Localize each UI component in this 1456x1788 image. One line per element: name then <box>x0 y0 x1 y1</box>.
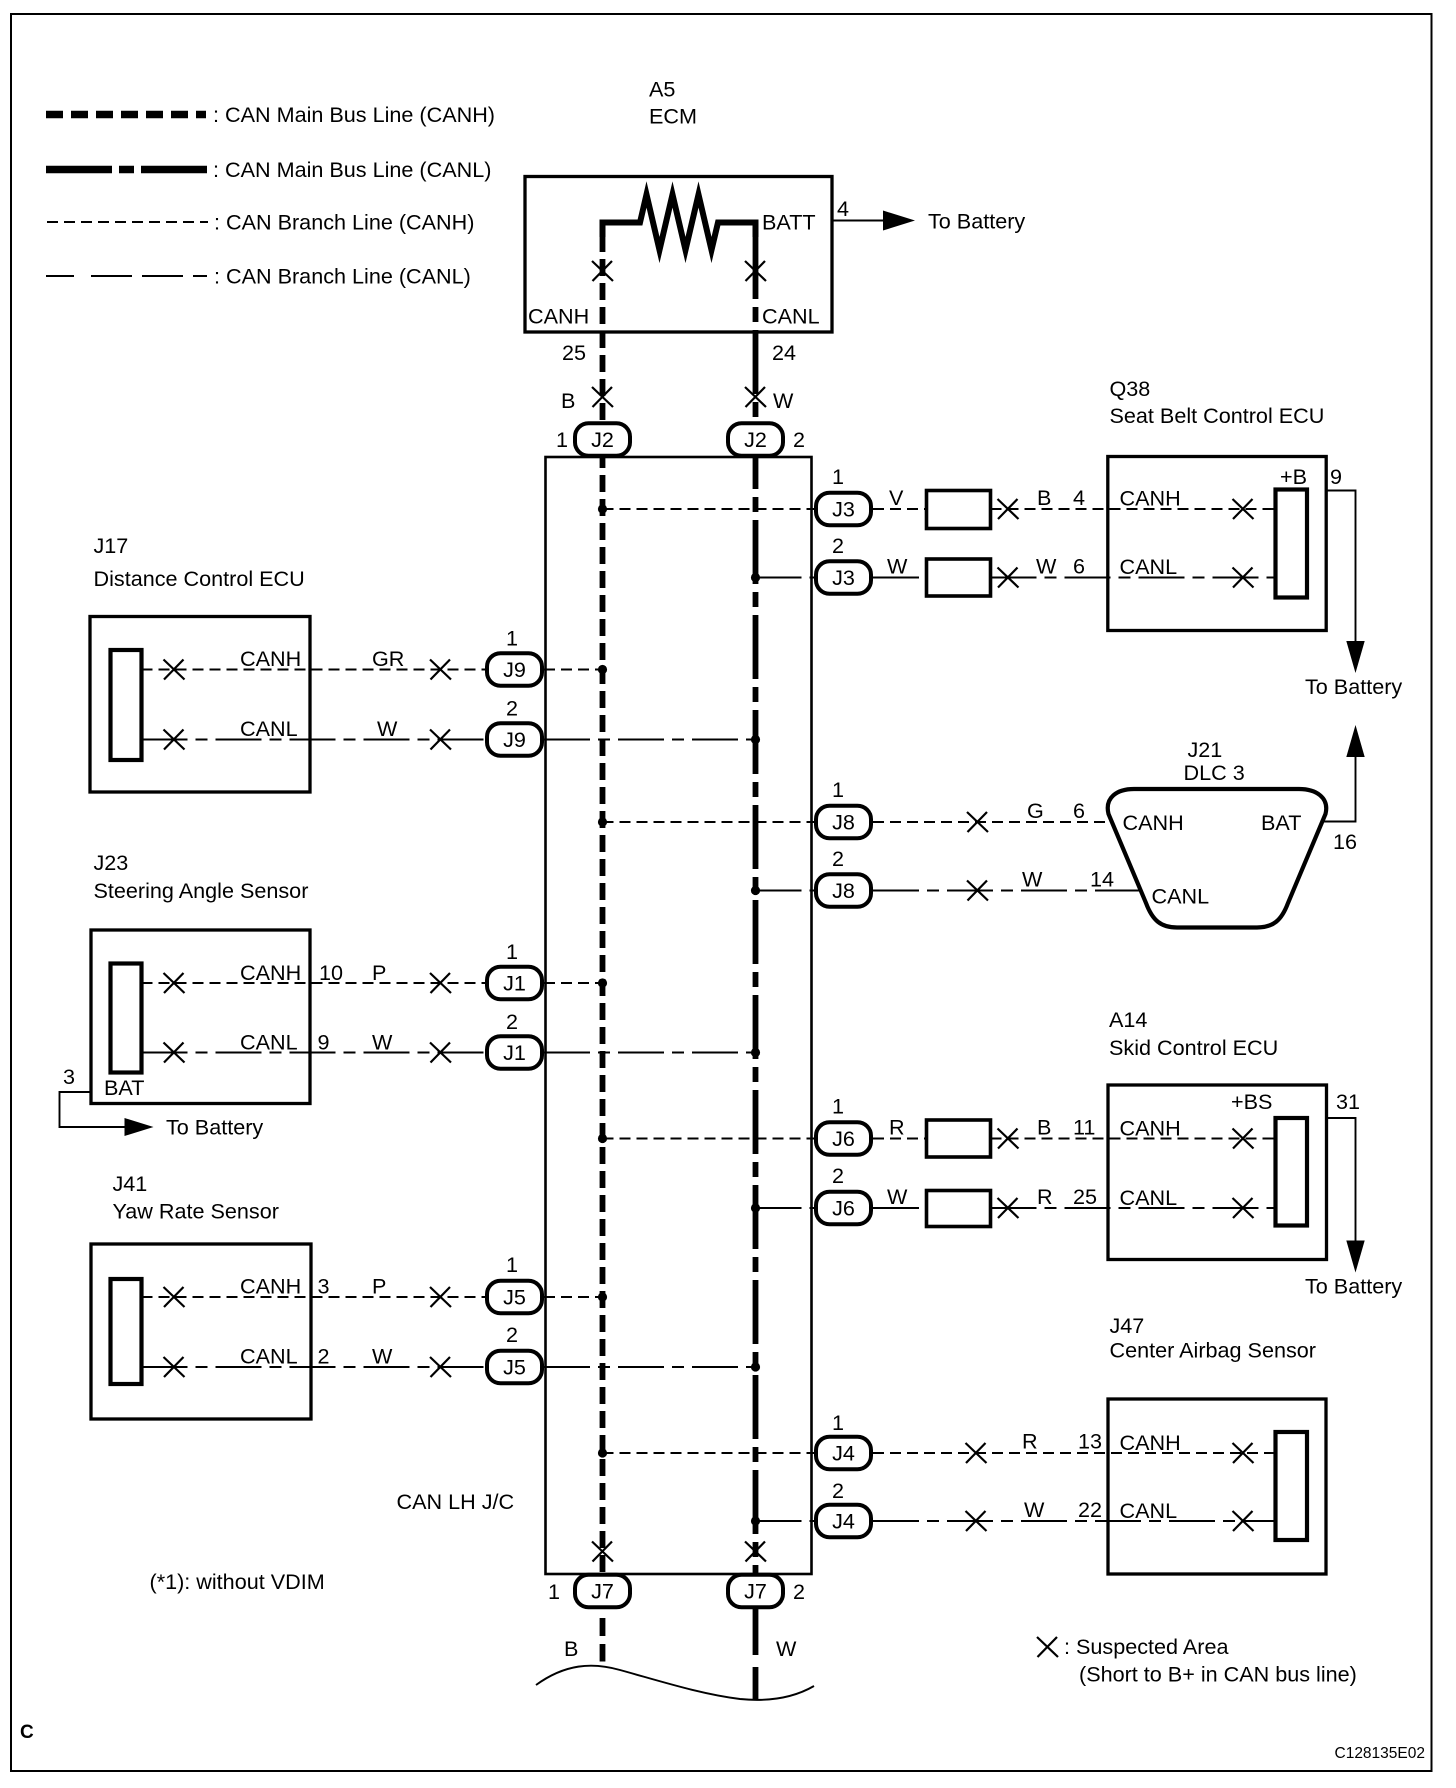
arrow to battery (right) <box>883 211 915 231</box>
suspected-area mark J17 CANH inner <box>164 660 185 680</box>
node junction dot J8-2 on CANL bus <box>751 886 760 895</box>
wire J8-2 to DLC3 CANL <box>873 890 1141 892</box>
wire J8 CANL branch from CANL bus <box>756 890 815 892</box>
svg-text:BAT: BAT <box>1261 810 1301 835</box>
svg-text:R: R <box>1022 1429 1038 1454</box>
svg-text:2: 2 <box>506 1322 518 1347</box>
connector J7 pin 2 <box>728 1575 783 1608</box>
noise filter box (CANH, A14) <box>927 1120 991 1157</box>
svg-text:A14: A14 <box>1109 1007 1147 1032</box>
svg-text:1: 1 <box>506 939 518 964</box>
svg-text:J41: J41 <box>113 1171 148 1196</box>
svg-text:1: 1 <box>506 1252 518 1277</box>
wavy break line <box>536 1666 814 1700</box>
svg-text:P: P <box>372 1274 386 1299</box>
svg-text:9: 9 <box>318 1030 330 1055</box>
svg-text:J7: J7 <box>744 1579 767 1604</box>
svg-text:Center Airbag Sensor: Center Airbag Sensor <box>1110 1338 1316 1363</box>
svg-text:J5: J5 <box>503 1355 526 1380</box>
node junction dot J3-1 on CANH bus <box>598 504 607 513</box>
connector J4 pin 1 <box>816 1437 871 1470</box>
svg-text:2: 2 <box>506 1009 518 1034</box>
svg-text:1: 1 <box>832 777 844 802</box>
wire J23 CANL branch (W) <box>142 1052 486 1054</box>
wire noise filter to A14 CANL <box>991 1207 1276 1209</box>
svg-text:W: W <box>776 1636 797 1661</box>
svg-text:1: 1 <box>832 1410 844 1435</box>
svg-text:: CAN Main Bus Line (CANL): : CAN Main Bus Line (CANL) <box>213 157 491 182</box>
svg-text:C: C <box>20 1722 34 1743</box>
svg-text:CANL: CANL <box>240 716 298 741</box>
svg-text:1: 1 <box>832 1094 844 1119</box>
svg-text:+BS: +BS <box>1231 1089 1272 1114</box>
suspected-area mark on CANL at bottom of J/C <box>745 1542 766 1562</box>
svg-text:J21: J21 <box>1188 737 1223 762</box>
svg-text:6: 6 <box>1073 798 1085 823</box>
svg-text:11: 11 <box>1073 1115 1095 1140</box>
svg-text:2: 2 <box>832 846 844 871</box>
svg-text:W: W <box>377 716 398 741</box>
svg-text:B: B <box>564 1636 578 1661</box>
node junction dot J5-1 on CANH bus <box>598 1292 607 1301</box>
svg-text:: CAN Branch Line (CANL): : CAN Branch Line (CANL) <box>214 264 471 289</box>
connector block inside J17 <box>111 650 142 760</box>
svg-text:2: 2 <box>793 427 805 452</box>
suspected-area mark J23 CANH outer <box>430 973 451 993</box>
wire noise filter to Q38 CANH <box>991 508 1276 510</box>
suspected-area mark J47 CANL wire <box>966 1511 987 1531</box>
svg-text:W: W <box>372 1344 393 1369</box>
suspected-area mark on CANL above J2 <box>745 387 766 407</box>
connector block inside Q38 (+B) <box>1276 490 1308 598</box>
svg-text:CANH: CANH <box>240 960 301 985</box>
suspected-area mark J23 CANL outer <box>430 1043 451 1063</box>
svg-text:J7: J7 <box>591 1579 614 1604</box>
wire J23 CANL branch to CANL bus <box>544 1052 756 1054</box>
wire J41 CANH branch to bus <box>544 1296 603 1298</box>
svg-text:J4: J4 <box>832 1441 855 1466</box>
arrow to battery (up, J21) <box>1346 725 1364 757</box>
connector J6 pin 1 <box>816 1122 871 1155</box>
wire J6-2 to noise filter <box>873 1207 927 1209</box>
wire J41 CANL branch to CANL bus <box>544 1366 756 1368</box>
svg-text:BATT: BATT <box>762 210 816 235</box>
connector J9 pin 2 <box>487 723 542 756</box>
suspected-area mark J17 CANH outer <box>430 660 451 680</box>
suspected-area mark J47 CANL inner <box>1233 1511 1254 1531</box>
svg-text:R: R <box>889 1115 905 1140</box>
wire J23 CANH branch (P) <box>142 982 486 984</box>
svg-text:J6: J6 <box>832 1196 855 1221</box>
suspected-area mark J47 CANH wire <box>966 1443 987 1463</box>
svg-text:J5: J5 <box>503 1285 526 1310</box>
svg-text:B: B <box>1037 1115 1051 1140</box>
svg-text:To Battery: To Battery <box>166 1115 263 1140</box>
svg-text:CANL: CANL <box>240 1344 298 1369</box>
noise filter box (CANL, Q38) <box>927 559 991 596</box>
node junction dot J6-2 on CANL bus <box>751 1203 760 1212</box>
svg-text:J9: J9 <box>503 727 526 752</box>
legend sample: CAN Branch Line (CANH) <box>47 221 208 223</box>
svg-text:J1: J1 <box>503 1040 526 1065</box>
junction block CAN LH J/C box <box>546 457 812 1574</box>
wire BATT pin to battery arrow <box>832 220 886 222</box>
svg-text:CANH: CANH <box>240 1274 301 1299</box>
svg-text:C128135E02: C128135E02 <box>1335 1745 1426 1762</box>
svg-text:22: 22 <box>1078 1497 1102 1522</box>
legend sample: CAN Main Bus Line (CANL) <box>46 166 209 174</box>
ECU J41 box <box>91 1244 311 1419</box>
wire J41 CANL branch (W) <box>142 1366 486 1368</box>
wire noise filter to Q38 CANL <box>991 577 1276 579</box>
svg-text:W: W <box>773 388 794 413</box>
wire Q38 CANH branch from bus to J3 <box>603 508 815 510</box>
svg-text:24: 24 <box>772 340 796 365</box>
suspected-area mark A14 CANH inner <box>1233 1129 1254 1149</box>
arrow to battery (J23) <box>125 1118 154 1136</box>
wire CANL bus stub below J7 <box>753 1609 759 1700</box>
svg-text:3: 3 <box>318 1274 330 1299</box>
wire noise filter to A14 CANH <box>991 1138 1276 1140</box>
svg-text:CANH: CANH <box>1120 1430 1181 1455</box>
svg-text:J3: J3 <box>832 497 855 522</box>
connector J5 pin 1 <box>487 1281 542 1314</box>
svg-text:G: G <box>1027 798 1044 823</box>
svg-text:J8: J8 <box>832 810 855 835</box>
svg-text:BAT: BAT <box>104 1075 144 1100</box>
svg-text:25: 25 <box>1073 1184 1097 1209</box>
wire J17 CANH branch to bus <box>544 669 603 671</box>
ECU Q38 box <box>1108 457 1326 631</box>
connector J1 pin 1 <box>487 967 542 1000</box>
svg-text:W: W <box>1022 867 1043 892</box>
connector J21 DLC 3 body <box>1108 789 1326 928</box>
svg-text:To Battery: To Battery <box>1305 674 1402 699</box>
left side ECU devices section <box>60 533 761 1419</box>
svg-text:2: 2 <box>506 696 518 721</box>
svg-text:CAN LH J/C: CAN LH J/C <box>397 1489 515 1514</box>
suspected-area mark J17 CANL inner <box>164 730 185 750</box>
wire Q38 +B to battery <box>1326 491 1355 643</box>
wire J6-1 to noise filter <box>873 1138 927 1140</box>
connector block inside J23 <box>111 964 142 1073</box>
suspected-area mark J23 CANH inner <box>164 973 185 993</box>
wire CAN main bus CANL (vertical, W) <box>753 235 759 1608</box>
svg-text:14: 14 <box>1090 867 1114 892</box>
svg-text:CANH: CANH <box>240 646 301 671</box>
wire J8 CANH branch from bus to DLC3 <box>603 821 815 823</box>
node junction dot J1-1 on CANH bus <box>598 978 607 987</box>
suspected-area mark J41 CANH inner <box>164 1287 185 1307</box>
svg-text:J17: J17 <box>94 533 129 558</box>
node junction dot J9-2 on CANL bus <box>751 735 760 744</box>
svg-text:+B: +B <box>1280 464 1307 489</box>
legend sample: CAN Main Bus Line (CANH) <box>46 111 206 119</box>
arrow to battery (down, Q38) <box>1346 641 1364 673</box>
wire J23 BAT to battery <box>60 1092 127 1127</box>
svg-text:CANL: CANL <box>762 304 820 329</box>
suspected-area mark Q38 CANL wire <box>998 568 1019 588</box>
suspected-area mark on CANH inside ECM <box>592 261 613 281</box>
connector J1 pin 2 <box>487 1036 542 1069</box>
svg-text:R: R <box>1037 1184 1053 1209</box>
svg-text:B: B <box>561 388 575 413</box>
connector J2 pin 2 <box>728 423 783 456</box>
svg-text:W: W <box>1024 1497 1045 1522</box>
svg-text:W: W <box>1036 554 1057 579</box>
wire J23 CANH branch to bus <box>544 982 603 984</box>
noise filter box (CANL, A14) <box>927 1191 991 1227</box>
svg-text:6: 6 <box>1073 554 1085 579</box>
svg-text:CANH: CANH <box>1123 810 1184 835</box>
connector J7 pin 1 <box>575 1575 630 1608</box>
node junction dot J4-1 on CANH bus <box>598 1448 607 1457</box>
wire J17 CANH branch (GR) <box>142 669 486 671</box>
svg-text:31: 31 <box>1336 1089 1360 1114</box>
suspected-area legend mark <box>1037 1637 1058 1657</box>
svg-text:1: 1 <box>506 626 518 651</box>
connector J4 pin 2 <box>816 1505 871 1538</box>
ECU J47 box <box>1108 1399 1326 1574</box>
svg-text:25: 25 <box>562 340 586 365</box>
wire J6 CANH branch from bus <box>603 1138 815 1140</box>
node junction dot J1-2 on CANL bus <box>751 1048 760 1057</box>
svg-text:: CAN Main Bus Line (CANH): : CAN Main Bus Line (CANH) <box>213 102 495 127</box>
connector block inside J47 <box>1276 1432 1308 1540</box>
connector J2 pin 1 <box>575 423 630 456</box>
svg-text:2: 2 <box>832 1163 844 1188</box>
wire Q38 CANL branch from CANL bus to J3 <box>756 577 815 579</box>
svg-text:(Short to B+ in CAN bus line): (Short to B+ in CAN bus line) <box>1079 1662 1357 1687</box>
svg-text:2: 2 <box>832 533 844 558</box>
ECU J23 box <box>91 930 310 1104</box>
connector J6 pin 2 <box>816 1192 871 1225</box>
wire CANH bus stub below J7 <box>600 1618 606 1662</box>
suspected-area mark J8 CANL wire <box>967 881 988 901</box>
connector block inside A14 (+BS) <box>1276 1118 1308 1226</box>
arrow to battery (down, A14) <box>1346 1241 1364 1273</box>
suspected-area mark J23 CANL inner <box>164 1043 185 1063</box>
ECU J17 box <box>90 617 310 793</box>
svg-text:J4: J4 <box>832 1509 855 1534</box>
resistor R (CAN terminating resistor, with leads CANH to CANL) <box>603 195 756 251</box>
ECU A5 ECM box <box>525 177 832 333</box>
connector J8 pin 1 <box>816 806 871 839</box>
svg-text:: CAN Branch Line (CANH): : CAN Branch Line (CANH) <box>214 210 474 235</box>
svg-text:CANH: CANH <box>1120 486 1181 511</box>
svg-text:2: 2 <box>793 1579 805 1604</box>
suspected-area mark on CANL inside ECM <box>745 261 766 281</box>
node junction dot J4-2 on CANL bus <box>751 1516 760 1525</box>
suspected-area mark J8 CANH wire <box>967 812 988 832</box>
wire J4 CANL branch from CANL bus <box>756 1520 815 1522</box>
wire J4-1 to J47 CANH <box>873 1452 1276 1454</box>
connector J5 pin 2 <box>487 1351 542 1384</box>
svg-text:CANL: CANL <box>1152 884 1210 909</box>
wire J17 CANL branch (W) <box>142 739 486 741</box>
svg-text:J6: J6 <box>832 1126 855 1151</box>
svg-text:J9: J9 <box>503 657 526 682</box>
svg-text:CANH: CANH <box>528 304 589 329</box>
wire J3-2 to noise filter <box>873 577 927 579</box>
svg-text:To Battery: To Battery <box>1305 1274 1402 1299</box>
legend sample: CAN Branch Line (CANL) <box>46 275 207 277</box>
svg-text:B: B <box>1037 485 1051 510</box>
node junction dot J9-1 on CANH bus <box>598 665 607 674</box>
svg-text:DLC 3: DLC 3 <box>1184 760 1245 785</box>
svg-text:Distance Control ECU: Distance Control ECU <box>94 566 305 591</box>
wire J4-2 to J47 CANL <box>873 1520 1276 1522</box>
wire DLC3 BAT to battery <box>1322 757 1356 822</box>
wire J41 CANH branch (P) <box>142 1296 486 1298</box>
svg-text:A5: A5 <box>649 77 675 102</box>
wire CAN main bus CANH (vertical, B) <box>600 235 606 1608</box>
svg-text:4: 4 <box>1073 485 1085 510</box>
connector J3 pin 1 <box>816 493 871 526</box>
noise filter box (CANH, Q38) <box>927 491 991 529</box>
svg-text:CANL: CANL <box>1120 1498 1178 1523</box>
svg-text:J23: J23 <box>94 850 129 875</box>
ECU A5 ECM section <box>525 77 1025 414</box>
svg-text:CANL: CANL <box>240 1030 298 1055</box>
connector J8 pin 2 <box>816 874 871 907</box>
svg-text:Steering Angle Sensor: Steering Angle Sensor <box>94 878 309 903</box>
svg-text:3: 3 <box>63 1064 75 1089</box>
suspected-area mark J47 CANH inner <box>1233 1443 1254 1463</box>
svg-text:J2: J2 <box>591 427 614 452</box>
wire J8-1 to DLC3 CANH <box>873 821 1112 823</box>
footer legend section <box>20 1634 1425 1762</box>
suspected-area mark J41 CANL inner <box>164 1357 185 1377</box>
svg-text:4: 4 <box>837 196 849 221</box>
svg-text:W: W <box>887 554 908 579</box>
svg-text:1: 1 <box>556 427 568 452</box>
svg-text:ECM: ECM <box>649 104 697 129</box>
svg-text:10: 10 <box>319 960 343 985</box>
suspected-area mark A14 CANL inner <box>1233 1198 1254 1218</box>
svg-text:J3: J3 <box>832 565 855 590</box>
svg-text:J47: J47 <box>1110 1313 1145 1338</box>
right side ECU devices section <box>598 376 1403 1574</box>
svg-text:Skid Control ECU: Skid Control ECU <box>1109 1035 1278 1060</box>
suspected-area mark J41 CANL outer <box>430 1357 451 1377</box>
svg-text:CANH: CANH <box>1120 1116 1181 1141</box>
suspected-area mark Q38 CANL inner <box>1233 568 1254 588</box>
suspected-area mark on CANH above J2 <box>592 387 613 407</box>
wire J4 CANH branch from bus <box>603 1452 815 1454</box>
svg-text:2: 2 <box>318 1344 330 1369</box>
wire J6 CANL branch from CANL bus <box>756 1207 815 1209</box>
svg-text:9: 9 <box>1330 464 1342 489</box>
ECU A14 box <box>1108 1085 1327 1260</box>
svg-text:: Suspected Area: : Suspected Area <box>1064 1634 1229 1659</box>
legend group: line style samples <box>46 102 495 289</box>
svg-text:Seat Belt Control ECU: Seat Belt Control ECU <box>1110 403 1325 428</box>
wire J3-1 to noise filter <box>873 508 927 510</box>
connector J9 pin 1 <box>487 653 542 686</box>
svg-text:1: 1 <box>548 1579 560 1604</box>
node junction dot J5-2 on CANL bus <box>751 1362 760 1371</box>
suspected-area mark A14 CANH wire <box>998 1129 1019 1149</box>
svg-text:GR: GR <box>372 646 404 671</box>
svg-text:To Battery: To Battery <box>928 209 1025 234</box>
suspected-area mark J17 CANL outer <box>430 730 451 750</box>
wire J17 CANL branch to CANL bus <box>544 739 756 741</box>
suspected-area mark J41 CANH outer <box>430 1287 451 1307</box>
svg-text:W: W <box>372 1030 393 1055</box>
suspected-area mark A14 CANL wire <box>998 1198 1019 1218</box>
svg-text:J8: J8 <box>832 878 855 903</box>
connector J3 pin 2 <box>816 561 871 594</box>
node junction dot J8-1 on CANH bus <box>598 817 607 826</box>
connector block inside J41 <box>111 1279 142 1384</box>
svg-text:V: V <box>889 485 904 510</box>
svg-text:16: 16 <box>1333 829 1357 854</box>
node junction dot J3-2 on CANL bus <box>751 573 760 582</box>
svg-text:CANL: CANL <box>1120 1185 1178 1210</box>
svg-text:CANL: CANL <box>1120 554 1178 579</box>
CAN LH junction connector section <box>150 235 815 1700</box>
svg-text:1: 1 <box>832 464 844 489</box>
suspected-area mark Q38 CANH wire <box>998 499 1019 519</box>
suspected-area mark Q38 CANH inner <box>1233 499 1254 519</box>
svg-text:J1: J1 <box>503 971 526 996</box>
node junction dot J6-1 on CANH bus <box>598 1134 607 1143</box>
svg-text:P: P <box>372 960 386 985</box>
svg-text:13: 13 <box>1078 1429 1102 1454</box>
suspected-area mark on CANH at bottom of J/C <box>592 1542 613 1562</box>
svg-text:Q38: Q38 <box>1110 376 1151 401</box>
svg-text:2: 2 <box>832 1478 844 1503</box>
svg-text:Yaw Rate Sensor: Yaw Rate Sensor <box>113 1199 279 1224</box>
wire A14 +BS to battery <box>1327 1118 1356 1242</box>
svg-text:J2: J2 <box>744 427 767 452</box>
svg-text:W: W <box>887 1184 908 1209</box>
svg-text:(*1): without VDIM: (*1): without VDIM <box>150 1569 325 1594</box>
